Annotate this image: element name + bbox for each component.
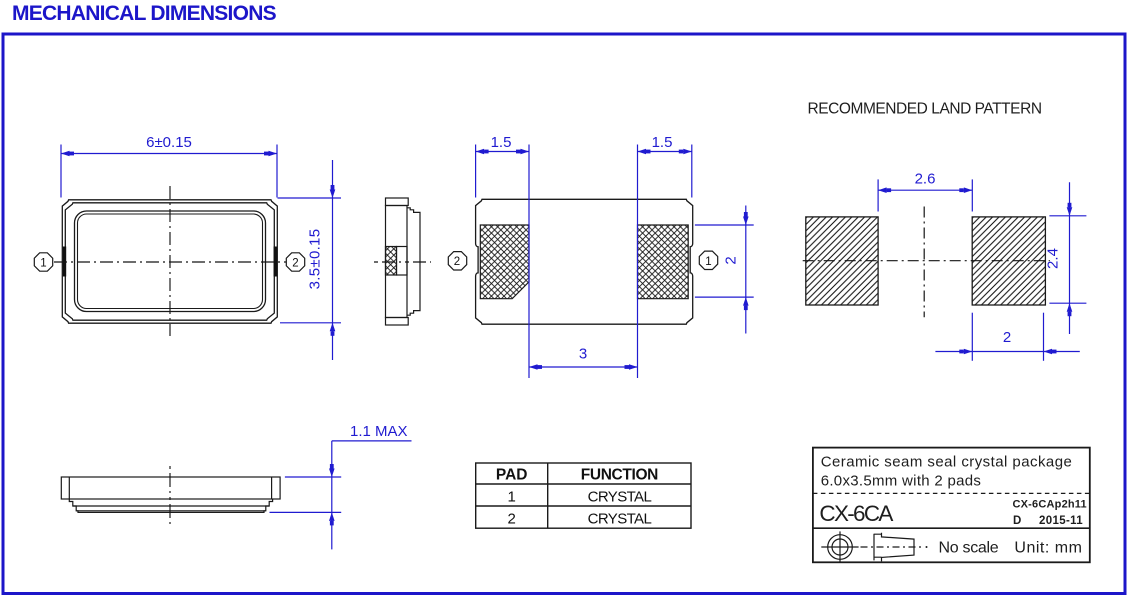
centerline vertical (top view)	[169, 186, 171, 336]
svg-text:2015-11: 2015-11	[1039, 515, 1083, 527]
dashed divider	[813, 492, 1090, 494]
table row line 2	[476, 505, 691, 507]
svg-text:1.5: 1.5	[652, 134, 673, 151]
svg-text:Unit: mm: Unit: mm	[1014, 540, 1082, 557]
pin 1 balloon (bottom view)	[699, 251, 717, 269]
title block border	[813, 448, 1090, 563]
land pattern centerline vertical	[923, 207, 925, 318]
dimension 3 (pad gap)	[529, 364, 638, 370]
dimension 2 (land width)	[935, 313, 1079, 361]
pin 1 balloon	[34, 253, 52, 271]
side view body	[386, 206, 408, 318]
body step	[69, 499, 272, 512]
svg-text:FUNCTION: FUNCTION	[581, 467, 658, 484]
pin 2 balloon	[286, 253, 304, 271]
svg-text:2.6: 2.6	[915, 171, 936, 188]
pin 2 balloon (bottom view)	[448, 252, 466, 270]
cavity inner rounded rect	[78, 214, 263, 309]
svg-text:1: 1	[705, 256, 711, 268]
table column divider	[547, 463, 549, 528]
body bottom line	[76, 510, 266, 512]
svg-text:Ceramic seam seal crystal pack: Ceramic seam seal crystal package	[821, 454, 1073, 471]
dimension 1.5 (left pad)	[476, 145, 529, 379]
package second outline	[65, 203, 274, 320]
svg-text:2.4: 2.4	[1045, 248, 1062, 269]
centerline (front view)	[169, 466, 171, 525]
svg-text:CX-6CAp2h11: CX-6CAp2h11	[1013, 499, 1087, 511]
svg-text:2: 2	[1003, 329, 1011, 346]
land pad left	[806, 217, 878, 305]
svg-text:1.5: 1.5	[491, 134, 512, 151]
svg-text:MECHANICAL DIMENSIONS: MECHANICAL DIMENSIONS	[12, 2, 277, 25]
electrode bar left (top view)	[63, 247, 66, 277]
solid divider	[813, 527, 1090, 529]
svg-text:2: 2	[454, 256, 460, 268]
electrode pocket box	[397, 247, 408, 276]
dimension 2 (pad height, right of bottom view)	[695, 206, 754, 334]
projection symbol: cone view	[861, 533, 928, 562]
lid left seam line	[68, 477, 70, 499]
svg-text:CRYSTAL: CRYSTAL	[588, 511, 652, 528]
land pattern centerline horizontal	[803, 260, 1050, 262]
side view lid top	[386, 198, 409, 206]
dimension 1.1 MAX	[270, 441, 412, 550]
svg-text:6±0.15: 6±0.15	[146, 134, 192, 151]
package outer outline with corner notches	[62, 200, 277, 323]
svg-text:6.0x3.5mm with 2 pads: 6.0x3.5mm with 2 pads	[821, 473, 982, 490]
svg-text:CX-6CA: CX-6CA	[819, 501, 893, 526]
dimension 2.6 (land gap)	[878, 179, 972, 211]
centerline (side view)	[374, 261, 431, 263]
electrode hatched (side view)	[386, 247, 397, 276]
land pad right	[972, 217, 1045, 305]
svg-text:2: 2	[292, 258, 298, 270]
svg-text:3: 3	[579, 346, 587, 363]
body mid line	[73, 505, 269, 507]
lid right seam line	[271, 477, 273, 499]
bottom view outline with corner notches and castellations	[476, 199, 693, 324]
cavity outer rounded rect	[75, 211, 266, 312]
side view lid bottom	[386, 318, 409, 326]
svg-text:2: 2	[508, 511, 516, 528]
svg-text:D: D	[1013, 515, 1021, 527]
electrode bar right (top view)	[274, 247, 277, 277]
svg-text:1: 1	[508, 489, 516, 506]
dimension 1.5 (right pad)	[638, 145, 692, 379]
left pad (hatched)	[480, 225, 529, 299]
svg-text:2: 2	[723, 256, 740, 264]
svg-text:PAD: PAD	[496, 467, 528, 484]
dimension 3.5±0.15	[278, 160, 342, 360]
table border	[476, 463, 691, 528]
lid slab	[61, 477, 280, 499]
table row line 1	[476, 483, 691, 485]
svg-text:RECOMMENDED LAND PATTERN: RECOMMENDED LAND PATTERN	[808, 101, 1042, 118]
step outline lines right	[407, 208, 420, 315]
svg-text:1: 1	[40, 258, 46, 270]
svg-text:1.1 MAX: 1.1 MAX	[350, 423, 408, 440]
projection symbol: circles view	[821, 531, 858, 562]
svg-text:3.5±0.15: 3.5±0.15	[307, 229, 324, 290]
dimension 6±0.15	[61, 145, 277, 198]
centerline horizontal (top view)	[54, 261, 286, 263]
svg-text:CRYSTAL: CRYSTAL	[588, 489, 652, 506]
svg-text:No scale: No scale	[939, 540, 999, 557]
dimension 2.4 (land height)	[1049, 182, 1086, 334]
right pad (hatched)	[638, 225, 689, 299]
